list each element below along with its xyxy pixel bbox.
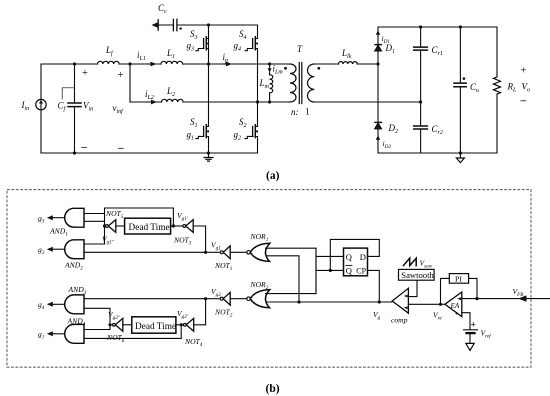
inverter NOT1: [220, 251, 223, 254]
svg-text:+: +: [521, 66, 527, 77]
wire battery to ground: [469, 334, 471, 343]
wire NOR2 to NOT2: [230, 298, 247, 300]
wire AND3 input 2: [84, 308, 110, 329]
capacitor Co: [459, 27, 461, 153]
inverter NOT4: [183, 323, 186, 326]
inductor Lm: [269, 64, 271, 102]
inductor L1: [161, 61, 183, 64]
wire NOR2 input 2 / Vg line: [267, 301, 393, 303]
arrow on Cc left terminal: [152, 22, 158, 27]
svg-text:+: +: [118, 70, 124, 81]
wire Vg1 to AND2 input 2: [84, 251, 206, 253]
error amplifier EA: [445, 292, 462, 317]
node loop to NOT3 output: [172, 224, 175, 227]
arrow iLm: [268, 68, 272, 72]
svg-text:–: –: [117, 142, 124, 154]
block Dead Time 1: [125, 218, 171, 234]
wire vertical bus x=104.5: [104, 208, 106, 244]
flip-flop box: [344, 248, 368, 276]
ground Vref: [466, 343, 474, 350]
svg-text:Dead Time: Dead Time: [129, 223, 170, 233]
inverter NOT3: [183, 225, 186, 228]
wire NOR2 input 1: [266, 248, 317, 293]
wire PI left to Vre: [441, 278, 450, 304]
node Lm bottom: [268, 100, 271, 103]
wire: branch down to L2 row: [129, 64, 131, 102]
AND gate AND3: [65, 295, 84, 314]
arrow VFB: [518, 295, 527, 301]
transformer T primary winding: [290, 64, 296, 102]
svg-text:–: –: [520, 95, 527, 107]
node NOT5 output junction: [103, 224, 106, 227]
wire NOT3 input from Vg1: [193, 226, 205, 252]
wire AND4 input 2: [84, 325, 181, 339]
wire top loop Vg1p: [105, 208, 174, 226]
transistor S2: [245, 102, 258, 153]
transistor S4: [245, 25, 258, 102]
wire: rectifier column x=378: [377, 27, 379, 153]
AND gate AND2: [65, 240, 84, 259]
node S1 ground junction: [207, 151, 210, 154]
wire NOR1 input 2: [267, 256, 300, 302]
wire NOT5 to DeadTime1: [116, 225, 125, 227]
svg-text:PI: PI: [455, 274, 462, 283]
node A split: [128, 62, 131, 65]
comparator comp: [392, 288, 408, 313]
battery Vref: [464, 329, 478, 331]
wire: secondary top y=64: [314, 63, 378, 65]
wire D feedback loop: [330, 239, 379, 270]
wire NOT6 to DeadTime2: [123, 324, 132, 326]
wire NOT4 input from Vg2: [194, 299, 206, 325]
wire: input bottom rail y=153: [41, 152, 258, 154]
svg-text:(b): (b): [266, 383, 280, 395]
dot marker right of Cc: [179, 27, 181, 29]
node AND4 input2 tap: [180, 323, 183, 326]
wire Q output: [316, 255, 344, 257]
sawtooth waveform icon: [403, 258, 416, 265]
NOR gate NOR1: [247, 251, 251, 255]
capacitor Cr1: [420, 27, 422, 102]
inductor L2: [162, 99, 184, 102]
wire CP input: [368, 270, 380, 302]
svg-text:Q: Q: [346, 265, 352, 275]
wire comp bottom input from EA: [408, 303, 440, 305]
inverter NOT6: [113, 323, 116, 326]
wire VFB line: [477, 298, 550, 300]
dashed control box: [7, 190, 531, 368]
node Vg2: [204, 297, 207, 300]
svg-text:comp: comp: [391, 316, 408, 325]
svg-text:EA: EA: [450, 302, 460, 310]
wire: input top rail y=64: [41, 63, 290, 65]
node D column / secondary: [376, 62, 379, 65]
transformer secondary winding: [307, 64, 314, 102]
diode D1: [375, 44, 381, 46]
node Lm top: [268, 62, 271, 65]
NOR gate NOR2: [247, 297, 251, 301]
svg-text:+: +: [82, 68, 88, 79]
resistor RL: [496, 27, 498, 153]
wire Qbar output: [316, 269, 344, 271]
block Sawtooth: [399, 269, 435, 280]
wire AND1 output g3: [52, 217, 65, 219]
wire: secondary bottom y=102: [314, 101, 420, 103]
node S3 bottom: [207, 62, 210, 65]
arrow ip: [222, 63, 228, 65]
svg-text:Q: Q: [346, 252, 352, 262]
ground under S1: [204, 153, 213, 161]
node NOT6 output junction: [108, 323, 111, 326]
inverter NOT2: [220, 297, 223, 300]
diode D2: [375, 121, 381, 123]
AND gate AND4: [65, 324, 84, 343]
wire NOT1 to NOR1: [230, 251, 247, 253]
node: Cf top junction: [73, 62, 76, 65]
node Vg NOR1 tap: [297, 300, 300, 303]
node VFB junction: [475, 297, 478, 300]
transformer core: [299, 63, 302, 104]
inductor Llk: [339, 62, 358, 64]
wire AND2 input 1: [84, 243, 105, 245]
svg-text:D: D: [360, 252, 366, 262]
node Qbar to D loop: [329, 269, 332, 272]
wire AND1 input 1: [84, 213, 105, 215]
wire: output top rail y=27: [378, 26, 497, 28]
capacitor Cr2: [420, 102, 422, 153]
node S4 bottom: [256, 100, 259, 103]
svg-text:Dead Time: Dead Time: [135, 322, 176, 332]
transistor S3: [196, 25, 209, 64]
arrow iD1: [376, 30, 380, 35]
wire NOR1 input 1: [266, 247, 317, 249]
wire: clamp top rail y=25: [158, 24, 257, 26]
block Dead Time 2: [132, 317, 176, 333]
node: Cf bottom junction: [73, 151, 76, 154]
wire EA minus input to Vref: [462, 313, 470, 330]
wire AND1 input 2: [84, 220, 105, 222]
polarity dot primary: [284, 67, 287, 70]
AND gate AND1: [65, 208, 84, 227]
wire PI right to VFB line: [469, 278, 477, 298]
wire Vg2 to NOT2: [206, 298, 220, 300]
wire AND2 output g2: [52, 248, 65, 250]
comp input marks: [404, 295, 408, 298]
svg-text:(a): (a): [266, 170, 280, 182]
node Vg CP tap: [378, 300, 381, 303]
block PI: [449, 274, 468, 284]
wire: left rail x=41: [40, 64, 42, 153]
svg-text:CP: CP: [356, 266, 366, 275]
inverter NOT5: [106, 225, 109, 228]
wire EA output to node: [441, 303, 445, 305]
svg-text:+: +: [455, 311, 459, 318]
wire AND3 input 1 from Vg2: [84, 298, 206, 300]
node Vre: [439, 303, 442, 306]
wire comp top input from sawtooth: [408, 280, 417, 296]
ground output: [459, 153, 461, 158]
arrow iL2: [147, 101, 153, 103]
svg-text:–: –: [81, 141, 88, 153]
wire NOT6 output to junction: [110, 324, 113, 326]
transistor S1: [196, 64, 209, 153]
svg-text:1: 1: [305, 107, 310, 117]
svg-text:Sawtooth: Sawtooth: [401, 270, 434, 280]
wire DeadTime1 to NOT3: [171, 225, 183, 227]
wire AND4 output g1: [52, 333, 65, 335]
leader line Cf: [62, 88, 73, 99]
node Cr midpoint: [419, 100, 422, 103]
current source Iin: [36, 99, 46, 109]
capacitor Cc: [158, 19, 177, 30]
arrow iD2: [376, 135, 380, 140]
wire: output bottom rail y=153: [378, 152, 497, 154]
node Vg1: [204, 251, 207, 254]
wire: L2 row y=102: [130, 101, 290, 103]
arrow iL1: [147, 63, 153, 65]
polarity dot secondary: [317, 67, 320, 70]
wire EA plus input to VFB line: [462, 298, 477, 300]
wire AND4 input 1: [84, 329, 110, 331]
svg-text:+: +: [471, 321, 476, 331]
EA input marks: [457, 297, 461, 300]
node S3 top: [207, 23, 210, 26]
svg-text:n:: n:: [291, 107, 299, 117]
wire AND3 output g4: [52, 303, 65, 305]
inductor Lf: [98, 61, 120, 64]
polarity dot Co: [463, 77, 466, 80]
wire Vg1 to NOT1: [206, 251, 220, 253]
wire DeadTime2 to NOT4: [176, 324, 184, 326]
capacitor Cf: [74, 64, 76, 153]
wire vertical bus x=316: [315, 248, 317, 293]
